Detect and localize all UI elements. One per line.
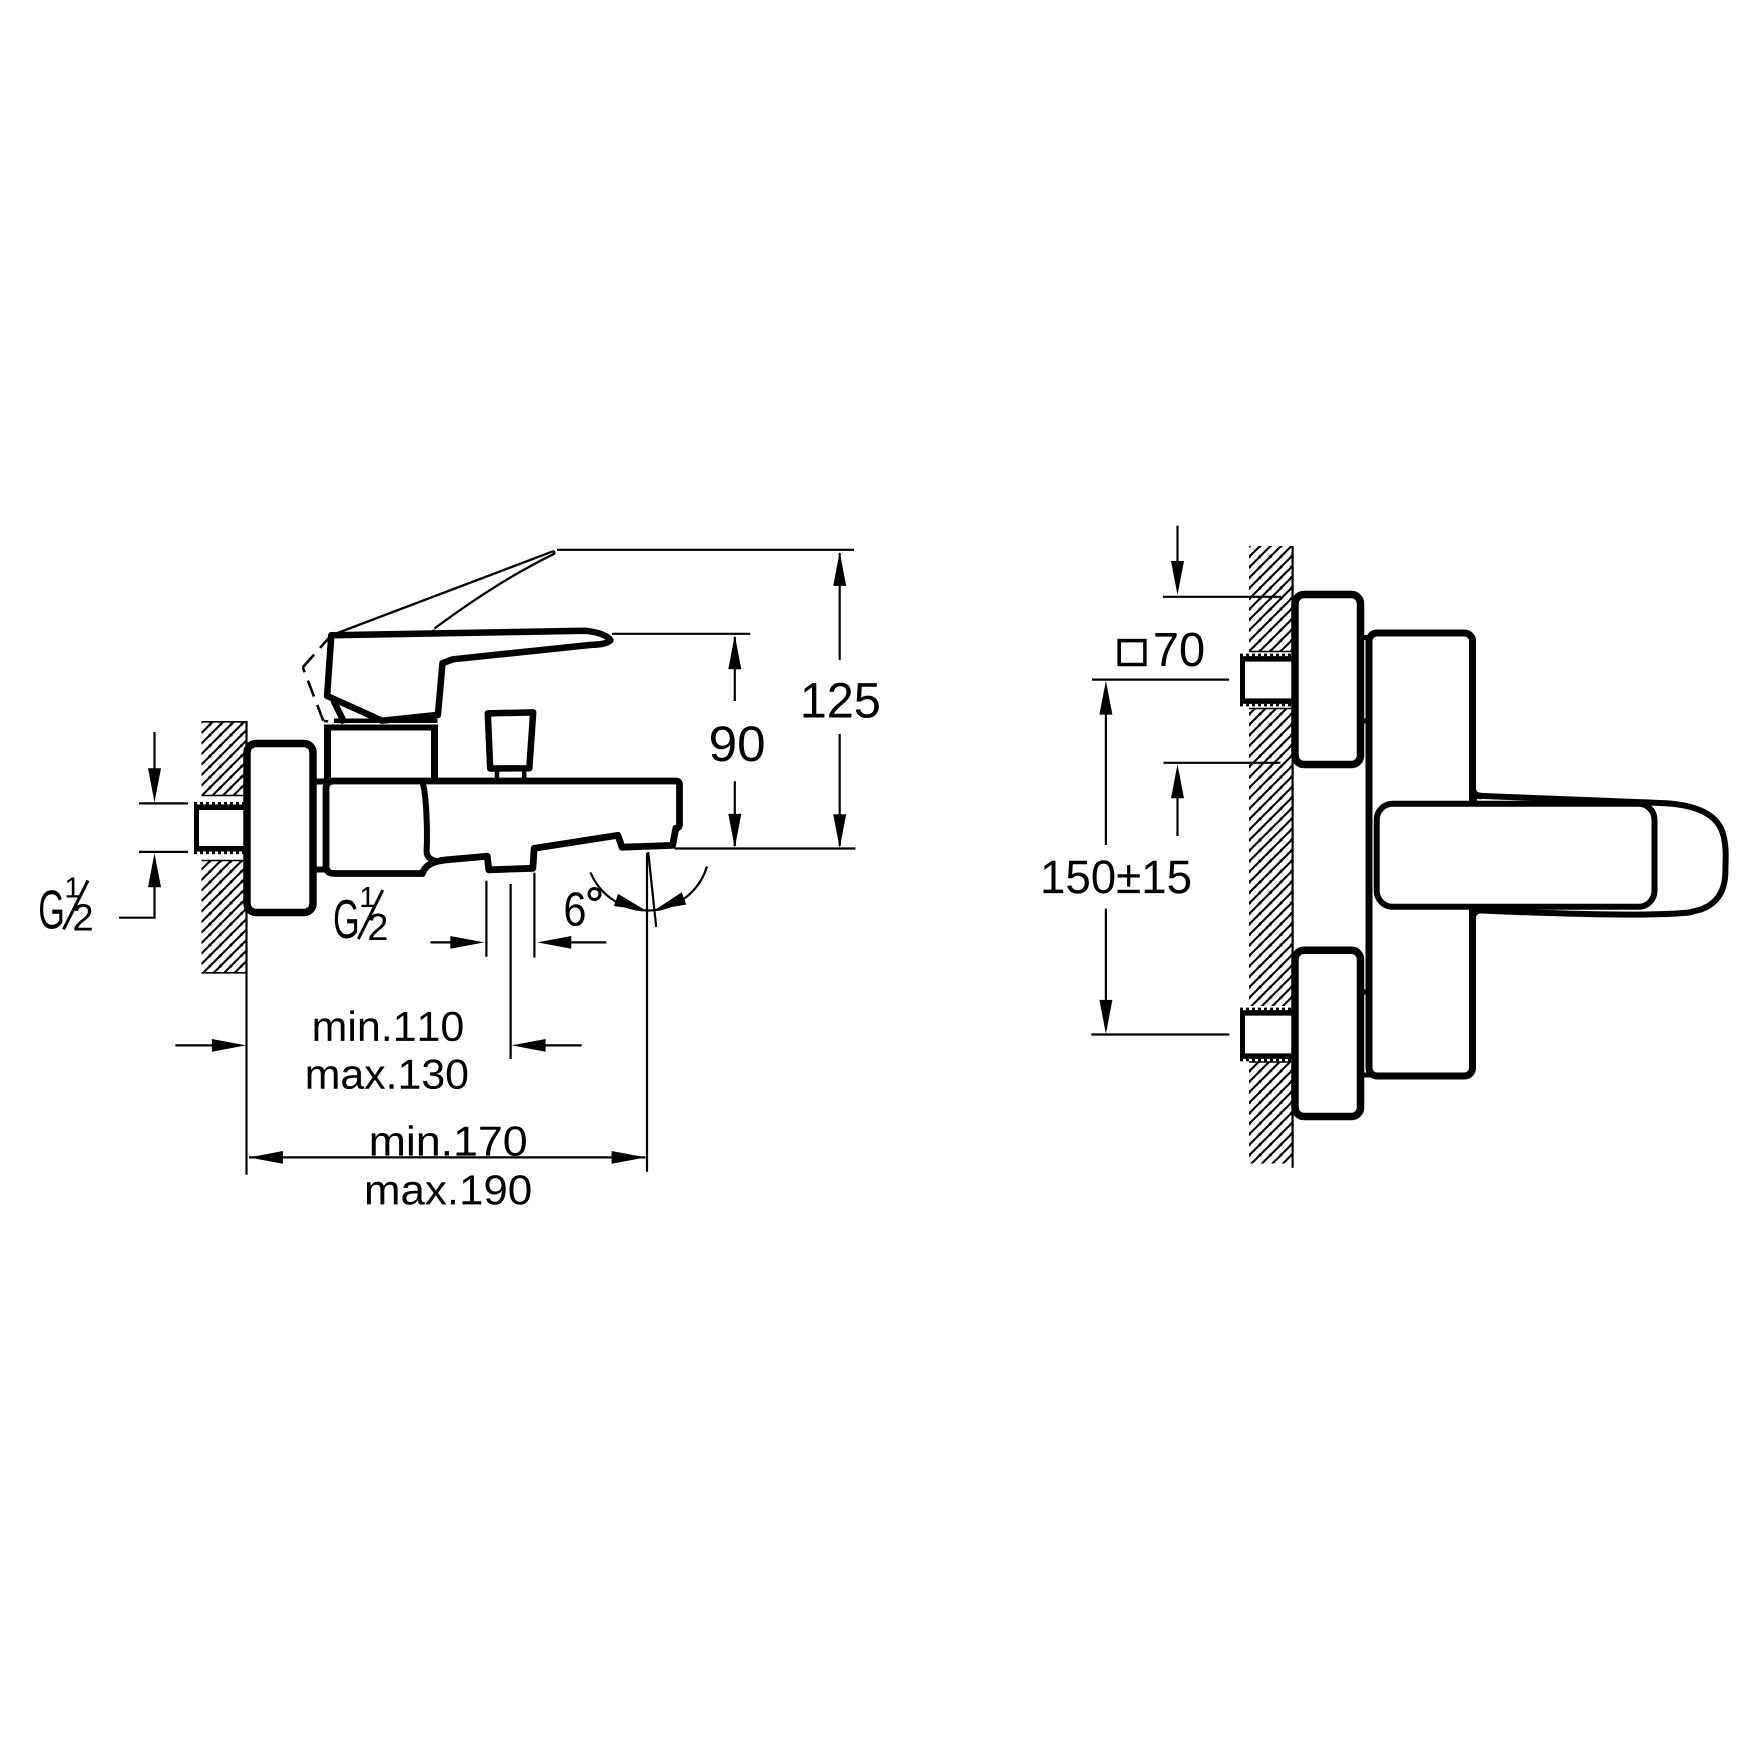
G1/2 dimension left of wall bbox=[119, 732, 188, 918]
mixer body (right view) bbox=[1369, 633, 1473, 1076]
6 degree arc arrowheads bbox=[614, 894, 645, 910]
upper escutcheon (right view) bbox=[1295, 595, 1361, 765]
open handle lever thin outline bbox=[331, 552, 554, 681]
6 degree tilted line bbox=[648, 852, 656, 927]
min110 max130 dimension bbox=[175, 1011, 581, 1090]
open handle dashed outline bbox=[303, 638, 430, 722]
handle leg (left view) bbox=[334, 701, 345, 724]
wall hatch upper section (left view) bbox=[202, 721, 247, 796]
top reveal arrow bbox=[1163, 526, 1281, 597]
dimension 90 bbox=[711, 635, 764, 848]
connectors escutcheon-body (right view) bbox=[1361, 635, 1372, 640]
extension line from open lever tip (125) bbox=[557, 549, 854, 551]
threaded nipple (left view) bbox=[194, 803, 249, 853]
bottom port extension lines bbox=[485, 881, 487, 957]
6 degree arc bbox=[591, 867, 708, 911]
lower escutcheon (right view) bbox=[1295, 950, 1361, 1116]
mixer body and spout (left view) bbox=[326, 781, 680, 874]
wall face line (right view) bbox=[1291, 546, 1293, 1168]
port centre extension line bbox=[510, 884, 512, 1059]
G1/2 label left bbox=[40, 878, 92, 931]
wall hatch lower section (left view) bbox=[202, 860, 247, 974]
handle lever outer outline (right view) bbox=[1474, 796, 1726, 915]
lower nipple (right view) bbox=[1240, 1009, 1295, 1060]
G1/2 bottom dimension arrows bbox=[431, 936, 607, 949]
6 degree angle reference vertical line bbox=[646, 853, 648, 1172]
escutcheon flange (left view) bbox=[247, 744, 313, 913]
handle grip inner outline (right view) bbox=[1377, 804, 1655, 907]
6 degree label bbox=[566, 892, 585, 926]
wall face line / extension line (left view) bbox=[245, 721, 247, 1175]
diverter knob (left view) bbox=[488, 712, 533, 768]
cartridge column (left view) bbox=[324, 727, 331, 779]
handle skirt ring (left view) bbox=[334, 719, 438, 724]
connector between escutcheon and body (left view) bbox=[313, 779, 327, 785]
escutcheon bottom arrow bbox=[1164, 763, 1281, 836]
min170 max190 dimension bbox=[249, 1125, 646, 1205]
spout root inner contour (left view) bbox=[423, 785, 436, 861]
body corner joins at handle (right view) bbox=[1473, 787, 1482, 796]
dimension 125 bbox=[804, 552, 879, 848]
lever handle closed position (left view) bbox=[327, 631, 610, 721]
wall hatch (right view) bbox=[1249, 546, 1293, 1164]
extension line at spout outlet bottom bbox=[675, 847, 856, 849]
upper nipple (right view) bbox=[1240, 655, 1295, 705]
G1/2 label bottom bbox=[335, 887, 387, 940]
150 +/- 15 dimension bbox=[1044, 680, 1230, 1035]
square 70 label bbox=[1119, 633, 1203, 667]
diverter stem (left view) bbox=[495, 769, 500, 780]
extension line from closed lever tip (90) bbox=[612, 633, 750, 635]
